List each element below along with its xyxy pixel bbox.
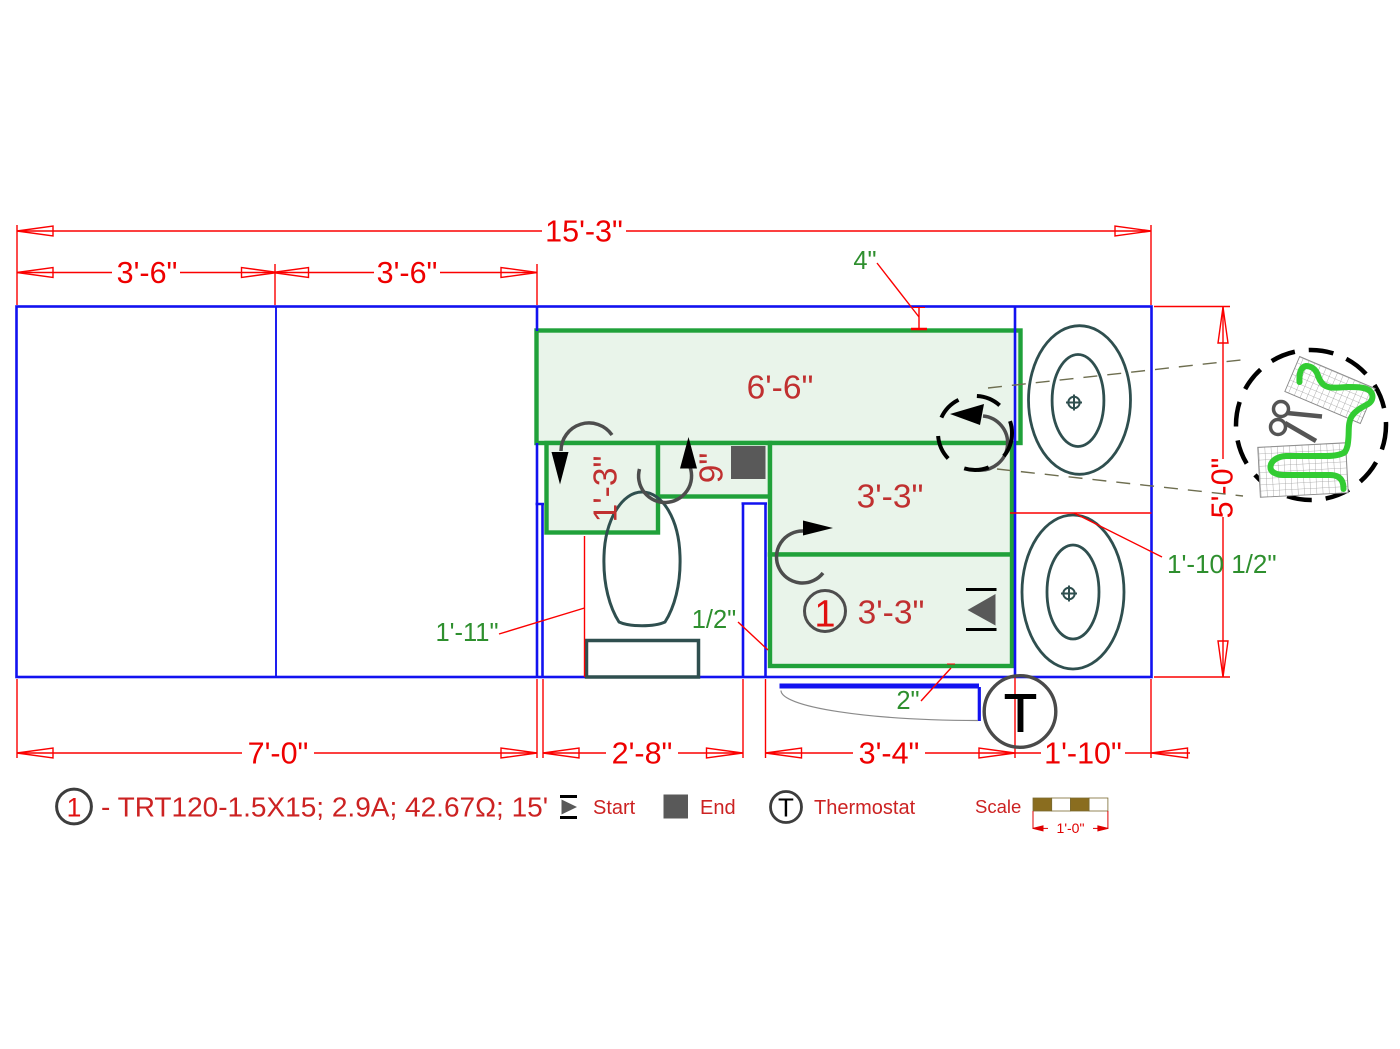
svg-text:2": 2" [896,687,919,715]
svg-text:5'-0": 5'-0" [1206,458,1240,519]
svg-text:Scale: Scale [975,796,1021,817]
turn arc A to B [561,423,612,451]
bottom dim line 2'-8" [543,752,606,754]
extension line x=275 [274,264,276,305]
THERMOSTAT [984,676,1056,748]
svg-text:6'-6": 6'-6" [747,370,814,407]
opening wall cap [742,502,768,505]
svg-text:End: End [700,797,736,819]
arrow right 15'-3" [1115,226,1151,236]
legend end symbol [664,795,689,819]
dim 4" tick line [918,308,920,330]
arrowhead left at cut [950,404,984,425]
extension line x=537 [536,264,538,305]
arrow left 15'-3" [17,226,53,236]
svg-text:7'-0": 7'-0" [248,737,309,771]
circled 1 in mat E [805,591,846,632]
toilet tank [587,641,699,678]
svg-text:1/2": 1/2" [692,606,737,634]
extension 5'-0" bottom [1154,676,1230,678]
mesh piece lower [1258,443,1348,498]
heating mat run C 9" [658,443,770,497]
sink 1 outer [1029,326,1131,475]
svg-text:Start: Start [593,797,636,819]
big detail dashed circle [1236,350,1386,500]
wall x=537 upper stub [536,307,539,332]
wall cap at 504 [536,503,545,506]
sink 2 outer [1022,515,1124,669]
opening wall x=765.5 [764,504,767,678]
FIXTURES [587,326,1131,677]
svg-text:3'-4": 3'-4" [859,737,920,771]
svg-text:1'-10 1/2": 1'-10 1/2" [1167,549,1277,579]
outer wall [17,307,1152,678]
legend thermostat symbol [771,792,802,823]
svg-text:T: T [778,793,794,823]
svg-text:T: T [1004,684,1037,744]
door swing arc [781,691,978,721]
svg-text:1'-11": 1'-11" [435,619,498,647]
turn arc B to C [639,467,692,502]
svg-text:1: 1 [814,594,835,636]
thermostat circle in plan [984,676,1056,748]
svg-text:4": 4" [853,247,876,275]
detail dashed circle at cut [938,396,1012,470]
dim 1'-11" vertical [584,536,586,677]
legend start symbol [560,795,577,798]
svg-text:1'-10": 1'-10" [1044,737,1122,771]
door jamb stub [978,687,981,721]
heating mat run E 3'-3" [770,555,1012,667]
svg-text:- TRT120-1.5X15; 2.9A; 42.67Ω;: - TRT120-1.5X15; 2.9A; 42.67Ω; 15' [101,792,548,823]
DIMENSIONS [17,225,1230,758]
heating cable serpentine [1270,366,1372,489]
svg-text:3'-6": 3'-6" [117,256,178,290]
turn arc D to E [777,531,823,583]
scale bar dimension [1033,811,1108,831]
bottom dim line 3'-4" [766,752,854,754]
toilet bowl [604,492,680,626]
extension line top left [16,225,18,305]
svg-text:3'-3": 3'-3" [857,479,924,516]
sink 1 drain [1066,395,1082,411]
DETAIL [938,350,1386,500]
vanity wall x=1015 [1014,307,1017,678]
arrowhead right into mat E [803,521,833,536]
scale bar [1033,798,1108,811]
extension 5'-0" top [1154,306,1230,308]
MAT LABELS [588,370,925,636]
dim 15'-3" line [17,230,542,232]
bottom extension lines [16,679,18,758]
dim 5'-0" line [1222,307,1224,459]
extension line top right [1150,225,1152,305]
dim 3'-6" a line [17,272,112,274]
detail connector lower [997,469,1243,496]
svg-text:1: 1 [67,793,82,823]
start marker in mat E [966,590,997,630]
arrowhead up into mat C [680,437,697,469]
svg-text:3'-6": 3'-6" [377,256,438,290]
bottom dim line 1'-10" [1015,752,1041,754]
svg-text:1'-0": 1'-0" [1057,820,1085,836]
svg-text:9": 9" [694,453,731,484]
heating mat run B 1'-3" [547,443,659,533]
sink 2 drain [1061,586,1077,602]
sink 1 inner [1052,355,1104,447]
scissors [1271,402,1323,442]
leader 1/2" [738,622,768,650]
bottom dim line 7'-0" [17,752,242,754]
svg-text:Thermostat: Thermostat [814,797,916,819]
legend circled 1 [57,789,92,824]
LEGEND [57,789,1108,836]
sink 2 inner [1047,545,1099,639]
svg-text:3'-3": 3'-3" [858,595,925,632]
end marker square [731,446,766,479]
wall x=537 lower [536,443,539,677]
GREEN LABELS [435,247,1276,715]
opening wall x=743 [742,504,745,678]
detail connector upper [988,360,1241,388]
arrows 3'-6" [17,268,53,278]
door leaf [780,684,980,689]
cut turn arc [978,416,1008,470]
arrows 5'-0" [1218,307,1228,343]
FLOW ARROWS [552,404,1008,630]
MATS [537,331,1021,667]
heating mat run D 3'-3" [770,443,1012,555]
wall x=542.5 [541,504,544,677]
leader 1'-10 1/2" diagonal [1074,513,1162,557]
WALLS [17,307,1152,722]
heating mat run A 6'-6" [537,331,1021,444]
leader 1'-10 1/2" horizontal [1010,512,1152,514]
leader 1'-11" [499,608,585,634]
arrowhead down into mat B [552,452,569,485]
leader 2" [921,668,951,701]
svg-text:1'-3": 1'-3" [588,456,625,523]
mesh piece upper [1285,356,1375,423]
svg-text:15'-3": 15'-3" [545,215,623,249]
svg-text:2'-8": 2'-8" [612,737,673,771]
partition wall x=276 [275,307,277,678]
leader 4" [877,263,919,317]
